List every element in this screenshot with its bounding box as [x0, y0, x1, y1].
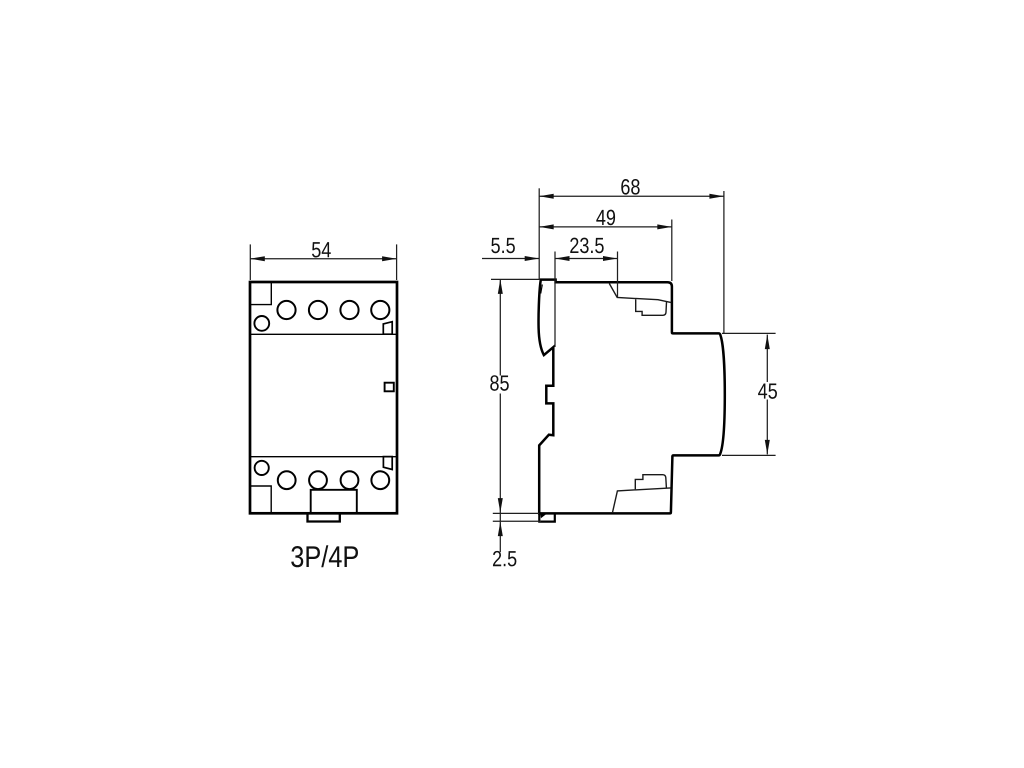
- front bottom terminal divider: [251, 456, 396, 458]
- dim 2.5 tail line: [499, 522, 501, 552]
- dim 85 dimension line lower: [499, 394, 501, 522]
- bottom DIN latch wedge: [540, 514, 546, 518]
- front mid-right small square: [385, 383, 394, 392]
- front top circle 3: [340, 301, 358, 319]
- dim 45 label: [758, 383, 777, 398]
- dim 23.5 extension left: [554, 252, 556, 348]
- front bottom circle 2: [309, 471, 327, 489]
- dim 45 arrow up: [765, 335, 770, 350]
- dim 49 dimension line: [539, 226, 672, 228]
- dim 5.5 leader line: [482, 258, 539, 260]
- bottom clip stepped tab: [635, 475, 666, 490]
- dim 68 arrow right: [709, 194, 724, 199]
- dim 68 extension left: [538, 188, 540, 279]
- dim 45 dimension line upper: [766, 335, 768, 382]
- dim 85 label: [490, 375, 509, 391]
- dim 2.5 extension lower: [493, 520, 541, 522]
- dim 45 dimension line lower: [766, 400, 768, 455]
- front bottom circle 1: [278, 471, 296, 489]
- front bottom circle 3: [341, 471, 359, 489]
- top clip flap: [609, 284, 671, 303]
- dim 45 arrow down: [765, 440, 770, 455]
- front bottom-right flag: [383, 457, 392, 470]
- dim 49 label: [596, 210, 615, 226]
- dim 45 extension top: [722, 332, 776, 334]
- front top-right flag: [383, 322, 392, 335]
- bottom clip flap: [612, 488, 670, 513]
- dim 49 arrow left: [539, 224, 554, 229]
- dim 54 dimension line: [250, 258, 396, 260]
- front bottom small circle: [255, 461, 269, 475]
- front DIN rail tab below body: [308, 514, 340, 521]
- dim 45 extension bottom: [722, 454, 776, 456]
- front body outline: [250, 282, 397, 513]
- front top circle 2: [309, 301, 327, 319]
- dim 54 extension line right: [396, 244, 398, 280]
- dim 85 extension top: [491, 278, 540, 280]
- dim 23.5 dimension line: [555, 258, 618, 260]
- blade inner mark: [541, 285, 543, 294]
- dim 68 extension right: [723, 191, 725, 333]
- front top circle 1: [277, 301, 295, 319]
- front top-left inner notch: [250, 283, 271, 305]
- dim 54 extension line left: [249, 244, 251, 280]
- dim 5.5 label: [491, 238, 515, 253]
- dim 2.5 extension upper: [493, 512, 539, 514]
- bottom DIN latch box: [539, 513, 555, 521]
- dim 68 arrow left: [539, 194, 554, 199]
- label 3P/4P: [291, 545, 358, 567]
- dim 85 arrow up: [498, 279, 503, 294]
- dim 23.5 label: [570, 238, 603, 254]
- dim 23.5 arrow right: [603, 256, 618, 261]
- dim 54 label: [312, 242, 331, 257]
- dim 49 arrow right: [657, 224, 672, 229]
- dim 2.5 label: [493, 551, 516, 567]
- dim 85 arrow down: [498, 498, 503, 512]
- front top small circle: [254, 316, 269, 331]
- dim 68 dimension line: [539, 195, 724, 197]
- front top terminal divider: [251, 333, 396, 335]
- dim 23.5 extension right: [617, 252, 619, 298]
- dim 68 label: [621, 179, 639, 195]
- front bottom-left inner step: [250, 486, 271, 513]
- dim 54 arrow left: [250, 256, 264, 261]
- dim 54 arrow right: [382, 256, 397, 261]
- front bottom circle 4: [371, 471, 389, 489]
- front bottom center block: [311, 490, 357, 513]
- dim 2.5 arrow up: [498, 522, 503, 537]
- dim 85 dimension line upper: [499, 279, 501, 375]
- front top circle 4: [371, 301, 389, 319]
- side body outline: [539, 280, 725, 514]
- dim 5.5 arrow: [525, 256, 540, 261]
- dim 49 extension right: [671, 220, 673, 282]
- dim 23.5 arrow left: [555, 256, 570, 261]
- top clip stepped tab: [636, 299, 667, 315]
